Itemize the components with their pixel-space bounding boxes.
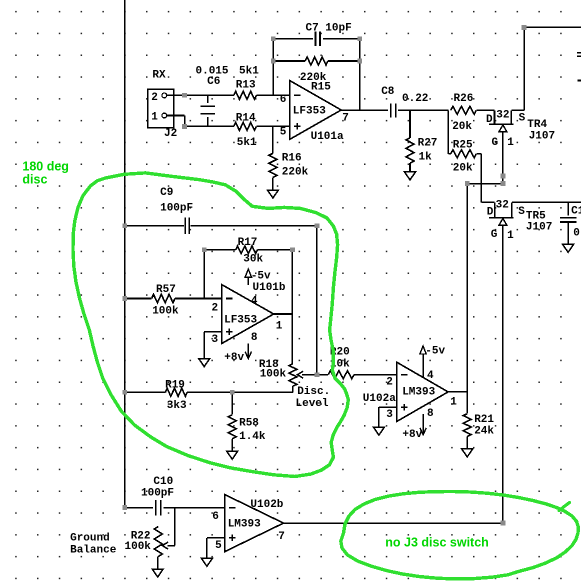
svg-text:1.4k: 1.4k	[239, 431, 266, 443]
svg-text:LM393: LM393	[402, 387, 435, 399]
svg-text:5: 5	[280, 126, 287, 138]
svg-text:R15: R15	[311, 82, 331, 94]
svg-text:R19: R19	[165, 379, 185, 391]
svg-text:3: 3	[386, 409, 393, 421]
svg-text:R17: R17	[238, 237, 258, 249]
svg-text:R25: R25	[453, 140, 473, 152]
svg-text:100pF: 100pF	[160, 203, 193, 215]
svg-text:G: G	[491, 229, 498, 241]
svg-text:J2: J2	[164, 128, 177, 140]
svg-text:2: 2	[151, 92, 158, 104]
svg-text:R26: R26	[454, 93, 474, 105]
svg-text:220k: 220k	[282, 167, 309, 179]
svg-text:R57: R57	[156, 284, 176, 296]
svg-text:20k: 20k	[453, 163, 473, 175]
svg-text:J107: J107	[529, 131, 555, 143]
svg-text:24k: 24k	[474, 426, 494, 438]
svg-text:6: 6	[212, 511, 219, 523]
svg-text:C8: C8	[381, 86, 395, 98]
svg-text:R27: R27	[418, 138, 438, 150]
svg-text:1: 1	[151, 111, 158, 123]
svg-text:32: 32	[496, 200, 509, 212]
svg-text:RX: RX	[152, 70, 166, 82]
svg-text:7: 7	[278, 531, 285, 543]
svg-text:8: 8	[427, 408, 434, 420]
svg-text:20k: 20k	[452, 121, 472, 133]
svg-text:1: 1	[507, 137, 514, 149]
svg-text:100pF: 100pF	[141, 487, 174, 499]
svg-text:1: 1	[450, 397, 457, 409]
svg-text:LM393: LM393	[228, 519, 261, 531]
svg-text:D: D	[487, 206, 494, 218]
svg-text:C6: C6	[207, 76, 220, 88]
svg-text:R58: R58	[239, 417, 259, 429]
svg-text:-5v: -5v	[251, 271, 271, 283]
svg-text:2: 2	[212, 303, 219, 315]
svg-text:S: S	[519, 113, 526, 125]
svg-text:32: 32	[496, 110, 509, 122]
svg-text:disc: disc	[22, 173, 47, 187]
svg-text:7: 7	[342, 113, 349, 125]
svg-text:8: 8	[251, 332, 258, 344]
svg-text:+8v: +8v	[224, 352, 244, 364]
svg-text:5k1: 5k1	[237, 137, 257, 149]
svg-text:3: 3	[212, 334, 219, 346]
svg-text:1: 1	[507, 230, 514, 242]
svg-text:G: G	[492, 137, 499, 149]
svg-text:6: 6	[280, 94, 287, 106]
svg-text:1k: 1k	[419, 152, 433, 164]
svg-text:30k: 30k	[243, 253, 263, 265]
svg-text:R13: R13	[236, 79, 256, 91]
svg-text:LF353: LF353	[293, 105, 326, 117]
svg-text:100k: 100k	[152, 305, 179, 317]
svg-text:TR4: TR4	[527, 119, 547, 131]
svg-text:4: 4	[251, 296, 258, 308]
svg-text:D: D	[486, 114, 493, 126]
svg-text:R16: R16	[282, 152, 302, 164]
svg-text:LF353: LF353	[224, 315, 257, 327]
svg-text:U101a: U101a	[311, 131, 344, 143]
svg-text:C1: C1	[571, 206, 581, 218]
svg-text:100k: 100k	[125, 541, 152, 553]
svg-text:Level: Level	[296, 398, 329, 410]
svg-text:0.22: 0.22	[402, 93, 428, 105]
svg-text:C9: C9	[160, 187, 173, 199]
svg-text:J107: J107	[526, 221, 552, 233]
svg-text:Disc.: Disc.	[297, 386, 330, 398]
svg-text:R14: R14	[236, 113, 256, 125]
svg-text:U101b: U101b	[253, 282, 286, 294]
svg-text:4: 4	[427, 370, 434, 382]
svg-text:Balance: Balance	[70, 544, 117, 556]
svg-text:5k1: 5k1	[239, 66, 259, 78]
svg-text:no J3 disc switch: no J3 disc switch	[385, 535, 489, 549]
svg-text:1: 1	[276, 321, 283, 333]
svg-text:0.: 0.	[573, 227, 581, 239]
svg-text:U102b: U102b	[250, 499, 283, 511]
svg-text:S: S	[518, 206, 525, 218]
svg-text:C7 10pF: C7 10pF	[306, 22, 352, 34]
svg-text:R21: R21	[474, 414, 494, 426]
svg-text:Ground: Ground	[70, 533, 110, 545]
svg-text:-5v: -5v	[425, 346, 445, 358]
svg-text:100k: 100k	[260, 368, 287, 380]
svg-text:3k3: 3k3	[167, 400, 187, 412]
svg-text:5: 5	[215, 540, 222, 552]
svg-text:+8v: +8v	[402, 429, 422, 441]
svg-text:180 deg: 180 deg	[22, 160, 69, 174]
svg-text:U102a: U102a	[363, 393, 396, 405]
svg-text:2: 2	[386, 377, 393, 389]
